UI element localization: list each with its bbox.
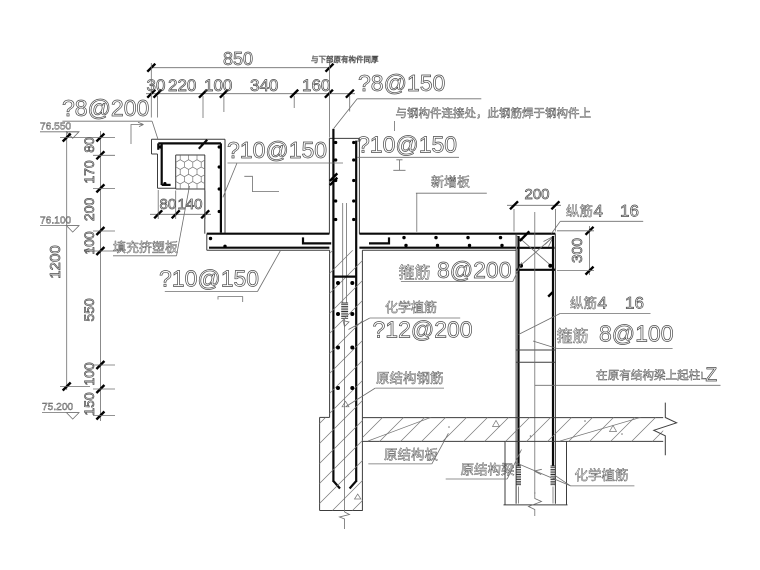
left level 76.100 <box>40 216 79 233</box>
label ?8@150 <box>334 70 482 129</box>
svg-text:填充挤塑板: 填充挤塑板 <box>113 240 178 255</box>
left outer dimension chain line 1200 <box>63 131 71 391</box>
svg-text:16: 16 <box>620 202 639 221</box>
top dimension chain 850 <box>147 49 333 72</box>
svg-text:100: 100 <box>81 362 97 386</box>
original slab hatch triangles <box>493 421 500 427</box>
svg-text:80: 80 <box>160 196 177 213</box>
parapet top rebar <box>158 140 221 150</box>
label chemical anchors ?12@200 <box>349 300 473 343</box>
label stirrups 8@100 <box>533 321 674 349</box>
beam section box at right column <box>516 231 555 269</box>
svg-text:化学植筋: 化学植筋 <box>385 300 437 315</box>
svg-text:76.550: 76.550 <box>40 122 71 133</box>
svg-text:4: 4 <box>598 294 607 313</box>
svg-text:30: 30 <box>147 76 166 95</box>
svg-text:140: 140 <box>178 196 203 213</box>
svg-text:原结构板: 原结构板 <box>384 448 438 463</box>
label ?10@150 (slab bottom) <box>159 251 280 302</box>
slab rebar dots <box>209 236 504 248</box>
right column outlines <box>516 234 555 504</box>
new slab bottom line <box>207 234 516 251</box>
anchor cage top bar <box>333 276 356 278</box>
central wall left rebar (continues into anchor cage) <box>330 129 340 489</box>
svg-text:200: 200 <box>525 186 550 203</box>
right column stirrups <box>516 350 555 362</box>
svg-text:原结构梁: 原结构梁 <box>461 463 515 478</box>
svg-text:8@100: 8@100 <box>599 321 674 347</box>
svg-text:160: 160 <box>302 76 330 95</box>
XPS filler board honeycomb <box>172 152 218 198</box>
svg-text:纵筋: 纵筋 <box>570 295 597 311</box>
original beam outline <box>504 441 568 505</box>
svg-text:850: 850 <box>223 49 253 69</box>
svg-text:?8@200: ?8@200 <box>62 95 149 121</box>
right column bar hook <box>548 292 552 296</box>
svg-text:Z: Z <box>706 365 718 386</box>
svg-text:16: 16 <box>625 294 644 313</box>
svg-text:?10@150: ?10@150 <box>159 266 259 292</box>
parapet wall rebar <box>218 143 221 232</box>
label longitudinal bars 4-16 (column) <box>519 294 651 335</box>
svg-text:550: 550 <box>81 298 97 322</box>
original slab outline <box>362 418 663 442</box>
old column below slab outline <box>320 250 363 510</box>
svg-text:75.200: 75.200 <box>42 402 73 413</box>
new slab top rebar line <box>207 233 556 235</box>
right column centerline <box>534 212 536 494</box>
svg-text:与钢构件连接处，此钢筋焊于钢构件上: 与钢构件连接处，此钢筋焊于钢构件上 <box>396 106 592 120</box>
svg-text:300: 300 <box>569 238 586 263</box>
svg-text:100: 100 <box>204 76 232 95</box>
svg-text:化学植筋: 化学植筋 <box>575 467 629 483</box>
C-shaped parapet outline <box>152 139 226 233</box>
svg-text:150: 150 <box>81 392 97 416</box>
svg-text:?10@150: ?10@150 <box>357 132 457 158</box>
label column starts on existing beam <box>535 365 721 386</box>
anchor cage dots <box>336 281 354 390</box>
left level 75.200 <box>42 402 79 419</box>
dim 300 beam depth <box>557 226 594 275</box>
original slab hatch <box>355 415 679 445</box>
note: welded to steel member at connection <box>395 106 591 131</box>
extension lines of top chains <box>151 63 349 138</box>
label original beam <box>446 450 522 480</box>
svg-text:80: 80 <box>81 137 97 153</box>
label ?10@150 (wall) <box>357 132 459 171</box>
original slab break symbol <box>654 403 677 456</box>
svg-text:340: 340 <box>250 76 278 95</box>
left level 76.550 <box>40 122 79 139</box>
label XPS filler board <box>113 186 190 256</box>
svg-text:箍筋: 箍筋 <box>557 328 589 346</box>
old column hatch <box>298 165 398 570</box>
svg-text:?12@200: ?12@200 <box>373 317 473 343</box>
svg-text:100: 100 <box>81 231 97 255</box>
label longitudinal bars 4-16 (beam) <box>552 202 644 234</box>
dim 80 140 <box>150 190 211 219</box>
svg-text:?8@150: ?8@150 <box>358 70 445 96</box>
label ?10@150 (parapet) <box>223 137 343 197</box>
svg-text:?10@150: ?10@150 <box>227 137 327 163</box>
svg-text:箍筋: 箍筋 <box>399 264 431 282</box>
svg-text:与下部原有构件同厚: 与下部原有构件同厚 <box>311 54 379 64</box>
top dimension chain segments 30 220 100 340 160 <box>146 76 355 98</box>
label new slab <box>416 175 487 232</box>
hatch triangles in old column <box>342 401 349 407</box>
new slab bottom rebar <box>209 247 516 249</box>
anchor bars from wall into old column <box>341 203 349 327</box>
central wall right rebar (continues into anchor cage) <box>350 141 357 489</box>
left chain extension lines <box>60 138 119 416</box>
svg-text:新增板: 新增板 <box>431 175 470 190</box>
dim 200 above right column <box>507 186 561 232</box>
slab bent bars at wall <box>303 237 389 243</box>
svg-text:原结构钢筋: 原结构钢筋 <box>376 370 444 386</box>
right column chemical anchors <box>516 466 555 485</box>
central wall outline <box>329 138 359 233</box>
svg-text:200: 200 <box>81 198 97 222</box>
svg-text:在原有结构梁上起柱: 在原有结构梁上起柱 <box>596 368 701 382</box>
svg-text:220: 220 <box>168 76 196 95</box>
svg-text:170: 170 <box>81 160 97 184</box>
label chemical anchors (right column) <box>516 463 635 486</box>
label stirrups 8@200 <box>399 257 522 283</box>
svg-text:1200: 1200 <box>47 245 64 278</box>
svg-text:纵筋: 纵筋 <box>566 203 593 219</box>
old column centerline with break <box>340 318 350 529</box>
left inner dimension chain line <box>96 131 104 421</box>
rotated dim texts 80 170 200 100 550 100 150 1200 <box>47 137 97 416</box>
label original slab <box>368 433 448 464</box>
label original structure rebar <box>346 370 444 407</box>
parapet left leg rebar <box>162 143 171 185</box>
anchor bar thin continuations <box>518 487 520 504</box>
svg-text:4: 4 <box>594 202 603 221</box>
svg-text:8@200: 8@200 <box>437 257 512 283</box>
label ?8@200 <box>62 95 158 144</box>
right column rebars <box>519 236 554 466</box>
original beam centerline break <box>529 492 542 516</box>
